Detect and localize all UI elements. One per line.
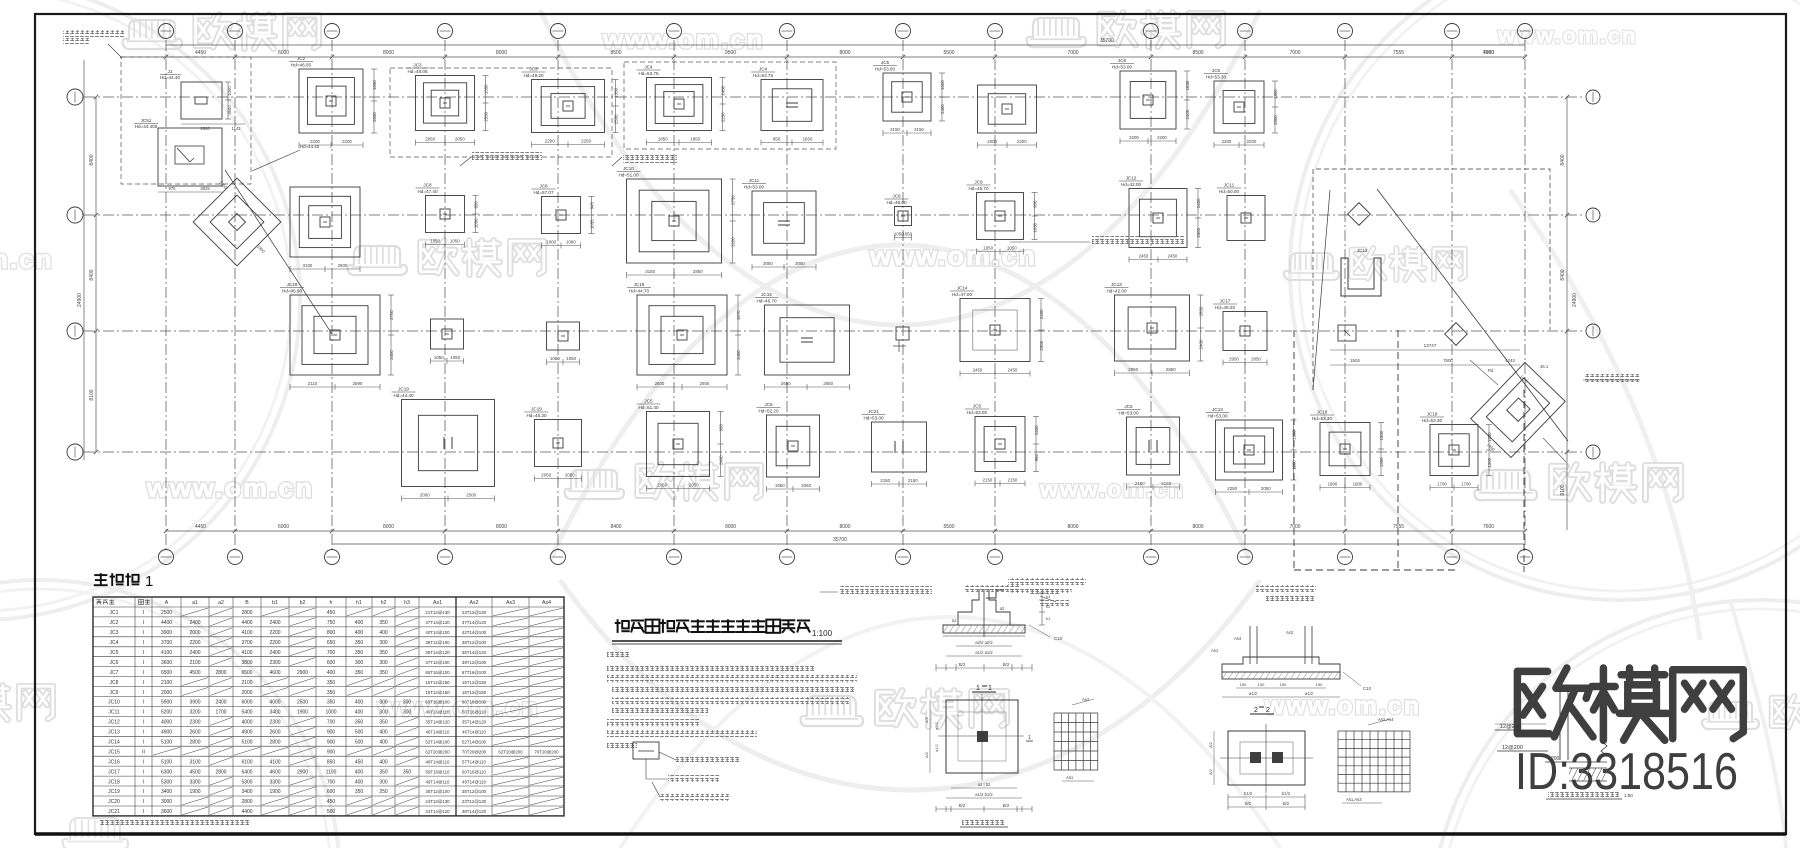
svg-text:7000: 7000 — [1289, 524, 1300, 530]
svg-text:JC21: JC21 — [868, 409, 879, 414]
svg-text:2400: 2400 — [1199, 339, 1204, 349]
svg-text:2100: 2100 — [189, 660, 200, 666]
foundation table — [93, 597, 564, 816]
svg-text:3200: 3200 — [731, 237, 736, 247]
footing JC22 row4 — [1117, 404, 1180, 490]
svg-text:Hd=47.40: Hd=47.40 — [417, 189, 437, 194]
svg-text:Hd=46.00: Hd=46.00 — [886, 200, 906, 205]
svg-text:Hd=42.00: Hd=42.00 — [1121, 182, 1141, 187]
svg-text:JC8: JC8 — [110, 680, 119, 686]
svg-text:850: 850 — [773, 137, 781, 142]
dashed zone row1 mid-right — [624, 62, 836, 149]
svg-text:b1/2: b1/2 — [1282, 791, 1291, 796]
svg-text:Hd=53.00: Hd=53.00 — [1207, 414, 1227, 419]
svg-text:2900: 2900 — [297, 670, 308, 676]
svg-text:60T16@100: 60T16@100 — [425, 700, 450, 705]
svg-text:1650: 1650 — [803, 137, 813, 142]
svg-text:35700: 35700 — [1100, 38, 1114, 44]
svg-text:2250: 2250 — [720, 112, 725, 122]
svg-text:Hd=52.20: Hd=52.20 — [758, 409, 778, 414]
svg-text:JC2: JC2 — [297, 56, 306, 61]
svg-text:JC12: JC12 — [108, 720, 120, 726]
svg-text:2950: 2950 — [1128, 367, 1138, 372]
small stair detail — [986, 590, 1004, 598]
svg-text:a2/2 a2/2: a2/2 a2/2 — [975, 640, 993, 645]
svg-text:8400: 8400 — [1560, 154, 1566, 165]
svg-text:a1: a1 — [952, 618, 957, 623]
svg-text:1050: 1050 — [473, 218, 478, 228]
svg-text:4450: 4450 — [195, 524, 206, 530]
svg-text:JC6: JC6 — [1212, 68, 1221, 73]
svg-text:2300: 2300 — [269, 720, 280, 726]
svg-text:www.om.cn: www.om.cn — [146, 473, 314, 503]
big watermark text OMW dark — [1517, 668, 1547, 676]
svg-text:3700: 3700 — [161, 640, 172, 646]
svg-text:JC9: JC9 — [974, 180, 983, 185]
svg-text:JC19: JC19 — [531, 407, 542, 412]
svg-text:1900: 1900 — [269, 789, 280, 795]
svg-text:I: I — [143, 680, 144, 686]
svg-text:1050: 1050 — [1007, 246, 1017, 251]
svg-text:5100: 5100 — [161, 740, 172, 746]
svg-text:48T14@110: 48T14@110 — [426, 759, 450, 764]
svg-text:350: 350 — [379, 670, 388, 676]
svg-text:3000: 3000 — [161, 799, 172, 805]
svg-text:2200: 2200 — [1017, 139, 1027, 144]
svg-text:1000: 1000 — [566, 240, 576, 245]
svg-text:150: 150 — [1280, 682, 1287, 687]
svg-text:1:100: 1:100 — [812, 629, 833, 638]
svg-text:2050: 2050 — [1261, 486, 1271, 491]
svg-text:400: 400 — [355, 620, 364, 626]
svg-text:945: 945 — [590, 202, 595, 210]
svg-text:400: 400 — [355, 779, 364, 785]
svg-text:JC2: JC2 — [110, 620, 119, 626]
footing JC11 row2 — [742, 178, 816, 270]
svg-text:350: 350 — [355, 720, 364, 726]
svg-text:46T14@110: 46T14@110 — [426, 730, 450, 735]
svg-text:2070: 2070 — [736, 310, 741, 320]
svg-text:4000: 4000 — [269, 700, 280, 706]
svg-text:3300: 3300 — [269, 779, 280, 785]
svg-text:1700: 1700 — [215, 710, 226, 716]
svg-text:1000: 1000 — [227, 86, 232, 96]
svg-text:2400: 2400 — [269, 620, 280, 626]
svg-text:2150: 2150 — [908, 478, 918, 483]
svg-text:350: 350 — [327, 700, 336, 706]
svg-text:300: 300 — [379, 640, 388, 646]
table title — [94, 574, 107, 576]
svg-text:60T16@100: 60T16@100 — [462, 700, 487, 705]
svg-text:24900: 24900 — [1572, 293, 1578, 307]
svg-text:JC4: JC4 — [644, 65, 653, 70]
svg-text:4400: 4400 — [241, 620, 252, 626]
svg-text:35T14@120: 35T14@120 — [462, 650, 487, 655]
svg-text:3100: 3100 — [189, 759, 200, 765]
footing JC2 row1 — [289, 56, 377, 148]
svg-text:JC19: JC19 — [398, 387, 409, 392]
svg-text:JC5: JC5 — [1124, 404, 1133, 409]
svg-text:400: 400 — [379, 630, 388, 636]
svg-text:Hd=45.90: Hd=45.90 — [282, 289, 302, 294]
svg-text:2200: 2200 — [342, 139, 352, 144]
svg-text:3200: 3200 — [189, 710, 200, 716]
svg-text:JC11: JC11 — [749, 178, 760, 183]
svg-text:62T20@200: 62T20@200 — [425, 750, 450, 755]
svg-text:1: 1 — [988, 685, 992, 692]
svg-text:350: 350 — [379, 620, 388, 626]
svg-text:1000: 1000 — [325, 710, 336, 716]
svg-text:350: 350 — [379, 650, 388, 656]
svg-text:2800: 2800 — [215, 670, 226, 676]
svg-text:35T14@120: 35T14@120 — [462, 720, 487, 725]
svg-text:2050: 2050 — [455, 137, 465, 142]
svg-text:24T12@130: 24T12@130 — [425, 799, 450, 804]
svg-text:7555: 7555 — [1393, 524, 1404, 530]
svg-text:3500: 3500 — [227, 105, 232, 115]
svg-text:JC8: JC8 — [423, 183, 432, 188]
svg-text:400: 400 — [379, 759, 388, 765]
footing JC8a row2 — [532, 184, 595, 249]
svg-text:2200: 2200 — [1222, 139, 1232, 144]
diamond footing row2 left — [193, 178, 281, 266]
svg-text:2400: 2400 — [189, 620, 200, 626]
svg-text:400: 400 — [355, 710, 364, 716]
svg-text:a1/2: a1/2 — [935, 744, 939, 751]
svg-text:2650: 2650 — [781, 381, 791, 386]
svg-text:B/2: B/2 — [959, 803, 966, 808]
svg-text:2400: 2400 — [718, 455, 723, 465]
svg-text:1055: 1055 — [589, 219, 594, 229]
svg-text:37T12@100: 37T12@100 — [425, 660, 450, 665]
svg-text:JC18: JC18 — [287, 282, 298, 287]
svg-text:Hd=44.400: Hd=44.400 — [135, 124, 158, 129]
svg-text:2050: 2050 — [801, 483, 811, 488]
svg-text:JC11: JC11 — [108, 710, 120, 716]
svg-text:1050: 1050 — [566, 356, 576, 361]
svg-text:2200: 2200 — [545, 139, 555, 144]
svg-text:JC17: JC17 — [1220, 299, 1231, 304]
svg-text:JC3: JC3 — [529, 67, 538, 72]
svg-text:Hd=47.00: Hd=47.00 — [952, 292, 972, 297]
svg-text:I: I — [143, 740, 144, 746]
svg-text:450: 450 — [327, 799, 336, 805]
svg-text:I: I — [143, 779, 144, 785]
svg-text:5500: 5500 — [943, 524, 954, 530]
svg-text:1050: 1050 — [902, 232, 912, 237]
svg-text:C10: C10 — [1054, 636, 1063, 641]
footing JC3 row1 — [406, 63, 489, 146]
svg-text:2300: 2300 — [189, 720, 200, 726]
svg-text:Hd=46.05: Hd=46.05 — [407, 69, 427, 74]
svg-text:38T14@120: 38T14@120 — [462, 809, 487, 814]
svg-text:3600: 3600 — [161, 809, 172, 815]
svg-text:8000: 8000 — [1067, 524, 1078, 530]
svg-text:1600: 1600 — [940, 80, 945, 90]
footing JC10 row2 — [617, 166, 736, 278]
svg-text:150: 150 — [1240, 682, 1247, 687]
svg-text:Hd=46.05: Hd=46.05 — [291, 63, 311, 68]
svg-text:1000: 1000 — [546, 240, 556, 245]
footing JC23 row4 — [1206, 407, 1297, 495]
svg-text:8000: 8000 — [839, 50, 850, 56]
svg-text:JC21: JC21 — [108, 809, 120, 815]
svg-text:JC13: JC13 — [1111, 282, 1122, 287]
footing JC20 row4 — [637, 399, 724, 492]
svg-text:70T20@200: 70T20@200 — [462, 750, 487, 755]
svg-text:As4: As4 — [542, 600, 551, 606]
svg-text:350: 350 — [355, 670, 364, 676]
svg-text:1504: 1504 — [1350, 358, 1360, 363]
svg-text:JC14: JC14 — [108, 740, 120, 746]
svg-text:2800: 2800 — [269, 740, 280, 746]
svg-text:B/2: B/2 — [959, 662, 966, 667]
svg-text:38T12@100: 38T12@100 — [425, 640, 450, 645]
svg-text:JC10: JC10 — [108, 700, 120, 706]
svg-text:3825: 3825 — [200, 186, 210, 191]
svg-text:As1: As1 — [1211, 648, 1219, 653]
svg-text:A/2: A/2 — [1209, 742, 1213, 748]
svg-text:JC6: JC6 — [764, 402, 773, 407]
footing JC21 row4 — [862, 409, 927, 487]
svg-text:1450: 1450 — [721, 85, 726, 95]
svg-text:JC17: JC17 — [108, 769, 120, 775]
footing JC8c row3 — [547, 322, 580, 365]
svg-text:1700: 1700 — [1437, 482, 1447, 487]
svg-text:300: 300 — [379, 710, 388, 716]
svg-text:2200: 2200 — [1247, 139, 1257, 144]
footing JC17 row3 — [1105, 282, 1204, 376]
svg-text:As2,As4: As2,As4 — [1378, 717, 1394, 722]
svg-text:2150: 2150 — [1161, 481, 1171, 486]
svg-text:I: I — [143, 799, 144, 805]
svg-text:2400: 2400 — [940, 104, 945, 114]
svg-text:JC6: JC6 — [110, 660, 119, 666]
svg-text:2600: 2600 — [269, 730, 280, 736]
svg-text:JC5: JC5 — [973, 404, 982, 409]
svg-text:23T12@130: 23T12@130 — [462, 799, 487, 804]
svg-text:300: 300 — [355, 660, 364, 666]
svg-text:4600: 4600 — [269, 670, 280, 676]
leader notes under dashed zones — [460, 157, 471, 166]
svg-text:4100: 4100 — [269, 759, 280, 765]
svg-text:3900: 3900 — [189, 700, 200, 706]
svg-text:Hd=44.40: Hd=44.40 — [393, 393, 413, 398]
svg-text:I: I — [143, 759, 144, 765]
svg-text:3400: 3400 — [389, 350, 394, 360]
svg-text:2500: 2500 — [1039, 340, 1044, 350]
svg-text:8100: 8100 — [1560, 484, 1566, 495]
svg-text:1050: 1050 — [450, 355, 460, 360]
svg-text:Hd=45.30: Hd=45.30 — [526, 413, 546, 418]
svg-text:700: 700 — [327, 650, 336, 656]
svg-text:I: I — [143, 690, 144, 696]
svg-text:Hd=53.30: Hd=53.30 — [1422, 418, 1442, 423]
svg-text:250: 250 — [379, 789, 388, 795]
svg-text:Hd=53.00: Hd=53.00 — [863, 416, 883, 421]
svg-text:2400: 2400 — [189, 650, 200, 656]
svg-text:2050: 2050 — [657, 483, 667, 488]
footing JC12 row2 — [1119, 176, 1201, 263]
svg-text:2000: 2000 — [987, 139, 997, 144]
svg-text:21T12@130: 21T12@130 — [425, 610, 450, 615]
svg-text:500: 500 — [327, 809, 336, 815]
svg-text:Hd=53.00: Hd=53.00 — [1112, 65, 1132, 70]
svg-text:II: II — [142, 750, 145, 756]
svg-text:2800: 2800 — [215, 769, 226, 775]
svg-text:2400: 2400 — [215, 700, 226, 706]
svg-text:1500: 1500 — [1379, 430, 1384, 440]
svg-text:Hd=53.00: Hd=53.00 — [875, 67, 895, 72]
svg-text:45.1: 45.1 — [1540, 364, 1549, 369]
svg-text:1100: 1100 — [326, 769, 337, 775]
svg-text:2950: 2950 — [1229, 357, 1239, 362]
svg-text:2150: 2150 — [890, 127, 900, 132]
svg-text:35T12@100: 35T12@100 — [425, 789, 450, 794]
svg-text:Hd=51.00: Hd=51.00 — [618, 173, 638, 178]
footing TL-b — [158, 128, 222, 186]
svg-text:Hd=44.40: Hd=44.40 — [300, 144, 320, 149]
svg-text:JC1: JC1 — [110, 610, 119, 616]
svg-text:3700: 3700 — [241, 640, 252, 646]
svg-text:1900: 1900 — [189, 789, 200, 795]
svg-text:23T12@130: 23T12@130 — [462, 610, 487, 615]
svg-text:3800: 3800 — [241, 660, 252, 666]
svg-text:350: 350 — [327, 690, 336, 696]
detail 2 plan — [1228, 731, 1305, 785]
svg-text:1350: 1350 — [614, 87, 619, 97]
detail 2-2 section — [1249, 626, 1251, 664]
svg-text:Hd=48.20: Hd=48.20 — [1215, 305, 1235, 310]
svg-text:52T14@100: 52T14@100 — [425, 740, 450, 745]
svg-text:JC13: JC13 — [108, 730, 120, 736]
svg-text:2900: 2900 — [297, 769, 308, 775]
small diamond row2 right — [1348, 203, 1371, 226]
svg-text:8500: 8500 — [610, 50, 621, 56]
svg-text:2600: 2600 — [200, 126, 210, 131]
svg-text:JC19: JC19 — [108, 789, 120, 795]
svg-text:50T16@110: 50T16@110 — [462, 710, 486, 715]
footing JC24 row4 — [1310, 410, 1384, 491]
svg-text:h1: h1 — [1046, 617, 1050, 621]
footing JC16 row3 — [627, 282, 741, 390]
svg-text:5300: 5300 — [241, 779, 252, 785]
dashed zone top-left — [121, 57, 251, 184]
svg-text:2800: 2800 — [241, 799, 252, 805]
svg-text:8100: 8100 — [89, 389, 95, 400]
svg-text:2450: 2450 — [1139, 254, 1149, 259]
svg-text:31T14@120: 31T14@120 — [425, 809, 450, 814]
svg-text:7000: 7000 — [1067, 50, 1078, 56]
svg-text:1: 1 — [145, 573, 153, 590]
svg-text:52T14@100: 52T14@100 — [462, 740, 487, 745]
svg-text:1050: 1050 — [1033, 222, 1038, 232]
tiny footing row3 right — [1338, 325, 1356, 341]
svg-text:2150: 2150 — [1135, 481, 1145, 486]
svg-text:JC6: JC6 — [1118, 58, 1127, 63]
svg-text:I: I — [143, 620, 144, 626]
svg-text:2000: 2000 — [241, 690, 252, 696]
svg-text:1900: 1900 — [1353, 482, 1363, 487]
svg-text:8400: 8400 — [1560, 269, 1566, 280]
svg-text:a1/2: a1/2 — [1249, 691, 1258, 696]
svg-text:2150: 2150 — [880, 478, 890, 483]
svg-text:8000: 8000 — [383, 524, 394, 530]
svg-text:3400: 3400 — [736, 350, 741, 360]
svg-text:49T16@110: 49T16@110 — [426, 710, 450, 715]
svg-text:1900: 1900 — [297, 710, 308, 716]
svg-text:2850: 2850 — [1251, 357, 1261, 362]
svg-text:4600: 4600 — [269, 769, 280, 775]
svg-text:2200: 2200 — [269, 640, 280, 646]
svg-text:I: I — [143, 789, 144, 795]
vertical grid axes — [165, 40, 167, 550]
svg-text:As1: As1 — [433, 600, 442, 606]
svg-text:4100: 4100 — [241, 630, 252, 636]
svg-text:39T12@100: 39T12@100 — [462, 660, 487, 665]
svg-text:2850: 2850 — [1166, 367, 1176, 372]
svg-text:1950: 1950 — [775, 483, 785, 488]
svg-text:2500: 2500 — [466, 493, 476, 498]
svg-text:1900: 1900 — [1273, 89, 1278, 99]
svg-text:4000: 4000 — [161, 720, 172, 726]
svg-text:2400: 2400 — [1185, 109, 1190, 119]
svg-text:2600: 2600 — [700, 381, 710, 386]
svg-text:350: 350 — [355, 650, 364, 656]
svg-text:JC9: JC9 — [110, 690, 119, 696]
svg-text:2000: 2000 — [161, 690, 172, 696]
svg-text:6000: 6000 — [278, 524, 289, 530]
svg-text:6300: 6300 — [161, 769, 172, 775]
svg-text:400: 400 — [379, 730, 388, 736]
svg-text:2550: 2550 — [613, 114, 618, 124]
svg-text:2110: 2110 — [308, 381, 318, 386]
svg-text:2500: 2500 — [338, 263, 348, 268]
svg-text:5100: 5100 — [241, 740, 252, 746]
svg-text:JC13: JC13 — [1212, 407, 1223, 412]
svg-text:650: 650 — [327, 640, 336, 646]
svg-text:1300: 1300 — [1379, 457, 1384, 467]
svg-text:As2: As2 — [470, 600, 479, 606]
svg-text:JC8: JC8 — [539, 184, 548, 189]
svg-text:6500: 6500 — [161, 670, 172, 676]
svg-text:JC9: JC9 — [892, 194, 901, 199]
watermark logos — [123, 39, 182, 49]
leader note top-left — [63, 30, 125, 37]
top dimension lines — [166, 44, 1525, 46]
svg-text:900: 900 — [327, 740, 336, 746]
svg-text:62T20@200: 62T20@200 — [498, 750, 523, 755]
svg-text:2650: 2650 — [823, 381, 833, 386]
svg-text:350: 350 — [379, 769, 388, 775]
detail foundation plan — [946, 700, 1018, 773]
svg-text:8000: 8000 — [1192, 524, 1203, 530]
svg-text:JC14: JC14 — [957, 286, 968, 291]
svg-text:b1: b1 — [272, 600, 278, 606]
svg-text:5100: 5100 — [161, 759, 172, 765]
footing JC15 row3 — [755, 292, 850, 390]
svg-text:7600: 7600 — [1443, 358, 1453, 363]
svg-text:2700: 2700 — [389, 310, 394, 320]
footing JC4 row1 — [637, 65, 726, 146]
svg-text:1850: 1850 — [1185, 80, 1190, 90]
svg-text:2800: 2800 — [241, 610, 252, 616]
svg-text:2100: 2100 — [241, 680, 252, 686]
svg-text:a2 | b2: a2 | b2 — [978, 782, 991, 787]
svg-text:I: I — [143, 710, 144, 716]
svg-text:JC4: JC4 — [110, 640, 119, 646]
svg-text:1900: 1900 — [1328, 482, 1338, 487]
